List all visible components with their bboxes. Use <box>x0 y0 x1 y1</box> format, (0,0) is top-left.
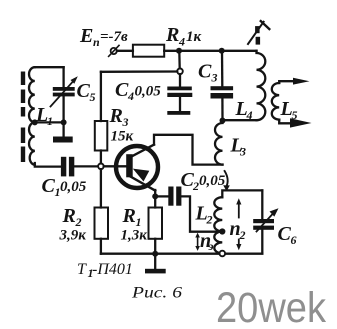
node dot C3 top <box>219 48 225 54</box>
inductor L5 <box>272 83 279 120</box>
node dot C3-L4-L3 <box>220 118 226 124</box>
wire R3 bottom <box>100 151 102 164</box>
svg-text:2: 2 <box>192 179 199 193</box>
svg-text:R: R <box>109 105 123 127</box>
capacitor C2 <box>168 187 181 206</box>
bottom rail <box>101 253 262 255</box>
wire L5 bottom out arrow <box>279 118 311 127</box>
svg-text:3: 3 <box>211 71 218 85</box>
inductor L2 <box>214 197 222 253</box>
wire <box>178 51 181 69</box>
chassis bar under C5 <box>53 122 73 142</box>
svg-text:0,05: 0,05 <box>60 179 87 195</box>
svg-text:20wek: 20wek <box>216 284 326 329</box>
caption Рис. 6 <box>131 285 182 302</box>
node dot L2 tap <box>219 228 225 234</box>
node circle base <box>98 164 104 170</box>
chassis bar under C4 <box>167 111 190 115</box>
inductor L4 <box>257 51 266 120</box>
label arrow curl <box>225 171 228 187</box>
svg-text:Т: Т <box>77 261 87 278</box>
wire L4 bottom <box>223 119 257 121</box>
svg-text:C: C <box>77 80 91 102</box>
node dot C5 bottom <box>61 119 67 125</box>
watermark <box>216 284 326 329</box>
resistor R2 <box>95 208 109 239</box>
wire R2 bottom <box>100 239 102 254</box>
node dot ground <box>152 251 158 257</box>
svg-text:-П401: -П401 <box>92 261 133 278</box>
svg-text:0,05: 0,05 <box>135 84 162 100</box>
wire top rail <box>164 50 256 52</box>
svg-text:1: 1 <box>47 114 53 128</box>
capacitor C6 <box>253 190 274 253</box>
transistor T1 <box>104 145 158 191</box>
svg-text:э: э <box>208 239 214 253</box>
svg-text:Е: Е <box>79 25 93 47</box>
label Еп=-7в <box>79 25 128 49</box>
svg-text:3,9к: 3,9к <box>59 228 87 244</box>
svg-text:3: 3 <box>239 145 246 159</box>
wire emitter down <box>154 190 156 196</box>
svg-text:R: R <box>122 205 136 227</box>
core dashes of L1 <box>21 72 25 163</box>
wire base to R2 <box>100 169 102 207</box>
svg-text:1,3к: 1,3к <box>121 228 148 244</box>
svg-text:0,05: 0,05 <box>199 173 226 189</box>
svg-text:Рис. 6: Рис. 6 <box>131 285 182 302</box>
svg-text:C: C <box>115 79 129 101</box>
wire R1 top <box>154 196 156 207</box>
wire L1 bottom <box>35 163 61 167</box>
svg-text:2: 2 <box>206 213 213 227</box>
wire C2 to tap <box>181 196 222 231</box>
wire R3 top <box>100 72 102 121</box>
wire L5 top out arrow <box>279 78 309 85</box>
node dot R4-C4 <box>176 48 182 54</box>
wire R1 bottom <box>154 239 156 254</box>
arrow of C5 <box>51 76 78 106</box>
node dot emitter <box>152 193 158 199</box>
terminal supply <box>109 45 119 56</box>
svg-text:4: 4 <box>178 35 185 49</box>
ground <box>145 254 166 274</box>
wire L1 top <box>35 66 64 68</box>
svg-text:5: 5 <box>90 90 96 104</box>
capacitor C3 <box>211 51 234 120</box>
inductor L3 <box>215 123 222 165</box>
resistor R3 <box>95 121 108 151</box>
svg-text:п: п <box>93 35 100 49</box>
svg-text:1к: 1к <box>186 29 202 45</box>
wire <box>117 50 133 52</box>
svg-text:=-7в: =-7в <box>100 29 128 45</box>
svg-text:6: 6 <box>291 233 297 247</box>
svg-text:C: C <box>42 175 56 197</box>
wire C1 to base <box>74 165 98 167</box>
capacitor C5 <box>53 67 75 122</box>
svg-text:2: 2 <box>239 228 246 242</box>
svg-text:3: 3 <box>122 115 129 129</box>
node circle C4 top <box>177 69 183 75</box>
svg-text:C: C <box>198 61 212 83</box>
arrow n2 span <box>236 198 241 250</box>
svg-text:R: R <box>165 24 179 46</box>
resistor R1 <box>149 208 163 239</box>
collector wire to L3 <box>154 135 223 165</box>
arrow пэ span <box>195 233 200 251</box>
resistor R4 <box>133 45 164 57</box>
svg-text:15к: 15к <box>111 129 134 145</box>
wire L1 tap <box>35 121 64 123</box>
svg-text:R: R <box>62 205 76 227</box>
arrow of C6 <box>257 208 279 231</box>
wire emitter to C2 <box>155 195 168 197</box>
svg-text:C: C <box>278 223 292 245</box>
capacitor C4 <box>167 74 192 111</box>
core adjust mark of L4 <box>248 21 269 44</box>
wire L2 top <box>222 190 262 197</box>
node dot L1 tap <box>32 119 38 125</box>
node circle L2 bottom <box>220 251 226 257</box>
wire mid supply <box>101 70 177 73</box>
capacitor C1 <box>61 157 74 177</box>
inductor L1 <box>29 67 35 165</box>
svg-text:4: 4 <box>127 89 134 103</box>
